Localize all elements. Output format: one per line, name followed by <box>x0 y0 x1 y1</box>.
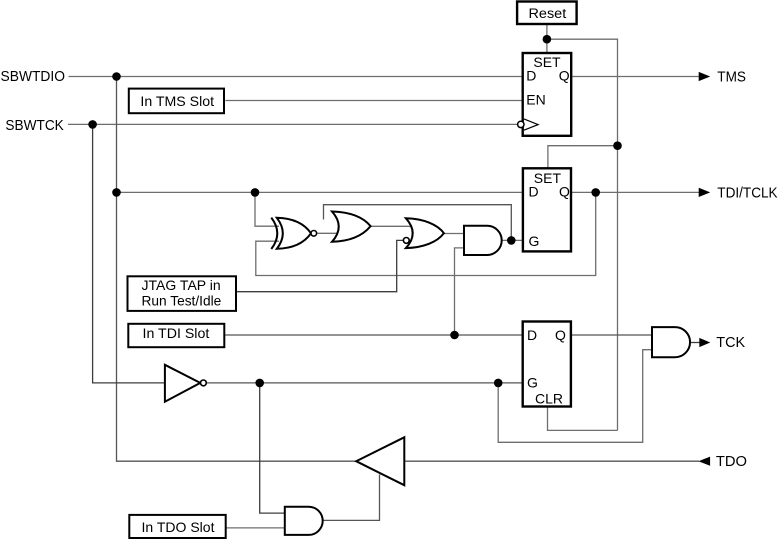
port arrows <box>698 72 710 466</box>
wire SBWTCK to clock of U1 <box>68 123 517 125</box>
svg-text:Q: Q <box>555 327 566 343</box>
wire AND X4 out to G of U2 <box>502 239 523 241</box>
node G3 branch <box>494 379 503 388</box>
wire OR X3 out to AND X4 <box>444 233 464 235</box>
svg-text:D: D <box>526 68 536 84</box>
svg-text:G: G <box>527 375 538 391</box>
wire In TMS Slot to EN of U1 <box>225 100 522 102</box>
flip-flop U1 <box>523 53 572 136</box>
wire CLR of U3 to reset line <box>548 407 618 431</box>
wire XNOR bottom input feedback from Q of U2 <box>256 192 596 275</box>
wire Q of U1 to TMS <box>571 76 699 78</box>
wire XNOR out to OR X2 <box>317 232 340 234</box>
wire SET of U2 tap <box>548 146 618 169</box>
svg-text:SET: SET <box>533 54 561 70</box>
wire G line branch to TCK AND bottom input <box>498 350 652 443</box>
JTAG TAP box <box>128 276 237 311</box>
wire inverter out branch to TDO AND <box>260 383 285 513</box>
clock wedge U1 <box>524 119 538 130</box>
svg-text:Reset: Reset <box>529 6 567 22</box>
In TDI Slot box <box>128 324 224 347</box>
flip-flop U3 <box>523 322 571 407</box>
flip-flop U2 <box>523 168 571 251</box>
svg-text:G: G <box>529 233 540 249</box>
wire Reset to SET of U1 <box>546 24 548 53</box>
arrow TDO <box>698 457 710 466</box>
svg-text:TMS: TMS <box>717 69 746 85</box>
wire AND X4 out feedback to OR X2 top input <box>324 205 512 241</box>
In TMS Slot box <box>129 89 224 114</box>
node TDI line left <box>112 188 121 197</box>
svg-text:SBWTCK: SBWTCK <box>5 118 64 134</box>
wire AND X4 bottom input from TDI slot line <box>455 248 465 335</box>
svg-text:Q: Q <box>559 184 570 200</box>
wire node to XNOR top input <box>255 192 279 226</box>
wire TDI line to D of U2 <box>117 191 523 193</box>
wire SBWTDIO to D of U1 <box>69 76 523 78</box>
svg-text:SBWTDIO: SBWTDIO <box>1 69 66 85</box>
node TDI line xnor branch <box>251 188 260 197</box>
svg-text:TDO: TDO <box>716 454 747 470</box>
node reset branch <box>543 35 552 44</box>
xnor gate X1 <box>271 218 316 249</box>
port labels <box>1 69 779 470</box>
wire In TDI Slot to D of U3 <box>224 334 522 336</box>
wire SBWTDIO branch down <box>117 77 357 462</box>
wire OR X2 out to OR X3 <box>371 225 413 227</box>
node TDI slot branch <box>450 331 459 340</box>
reset box <box>517 2 577 25</box>
tri-state buffer TDO <box>356 437 404 485</box>
wire TCK AND out <box>690 342 700 344</box>
wire SBWTCK branch to inverter <box>93 124 165 383</box>
arrow TCK <box>699 338 710 347</box>
and gate X4 <box>464 226 502 255</box>
svg-text:D: D <box>529 184 539 200</box>
wire reset branch down right side <box>547 39 618 430</box>
svg-text:CLR: CLR <box>535 391 563 407</box>
wire TDO AND out to buffer enable <box>323 475 380 521</box>
wire In TDO Slot to TDO AND <box>226 527 285 529</box>
svg-text:Q: Q <box>559 68 570 84</box>
node Q2 feedback <box>591 188 600 197</box>
node SBWTDIO branch <box>112 72 121 81</box>
wire TDO input <box>404 460 699 462</box>
In TDO Slot box <box>129 515 225 538</box>
wire Q of U3 to TCK AND <box>571 334 652 336</box>
or gate X2 <box>332 212 371 242</box>
node SET2 tap <box>613 141 622 150</box>
node AND X4 out <box>507 236 516 245</box>
arrow TDI/TCLK <box>699 188 711 197</box>
node inverter out branch <box>255 379 264 388</box>
arrow TMS <box>699 72 711 81</box>
wire Q of U2 to TDI/TCLK <box>571 191 699 193</box>
and gate TDO <box>285 507 323 535</box>
svg-text:TCK: TCK <box>716 335 745 351</box>
svg-text:In TMS Slot: In TMS Slot <box>140 93 214 109</box>
and gate TCK <box>652 327 690 357</box>
node SBWTCK branch <box>88 120 97 129</box>
svg-text:TDI/TCLK: TDI/TCLK <box>717 185 778 201</box>
svg-text:D: D <box>527 327 537 343</box>
svg-text:JTAG TAP in: JTAG TAP in <box>142 278 221 293</box>
or gate X3 with inverted input <box>403 218 444 248</box>
inverter <box>165 365 206 402</box>
wire inverter out to G of U3 <box>206 382 522 384</box>
svg-text:In TDO Slot: In TDO Slot <box>142 519 215 535</box>
clock bubble U1 <box>518 121 524 127</box>
svg-text:EN: EN <box>526 92 545 108</box>
svg-text:Run Test/Idle: Run Test/Idle <box>142 294 222 309</box>
svg-text:In TDI Slot: In TDI Slot <box>143 325 210 341</box>
wire JTAG TAP box to OR X3 bubble input <box>236 240 403 291</box>
